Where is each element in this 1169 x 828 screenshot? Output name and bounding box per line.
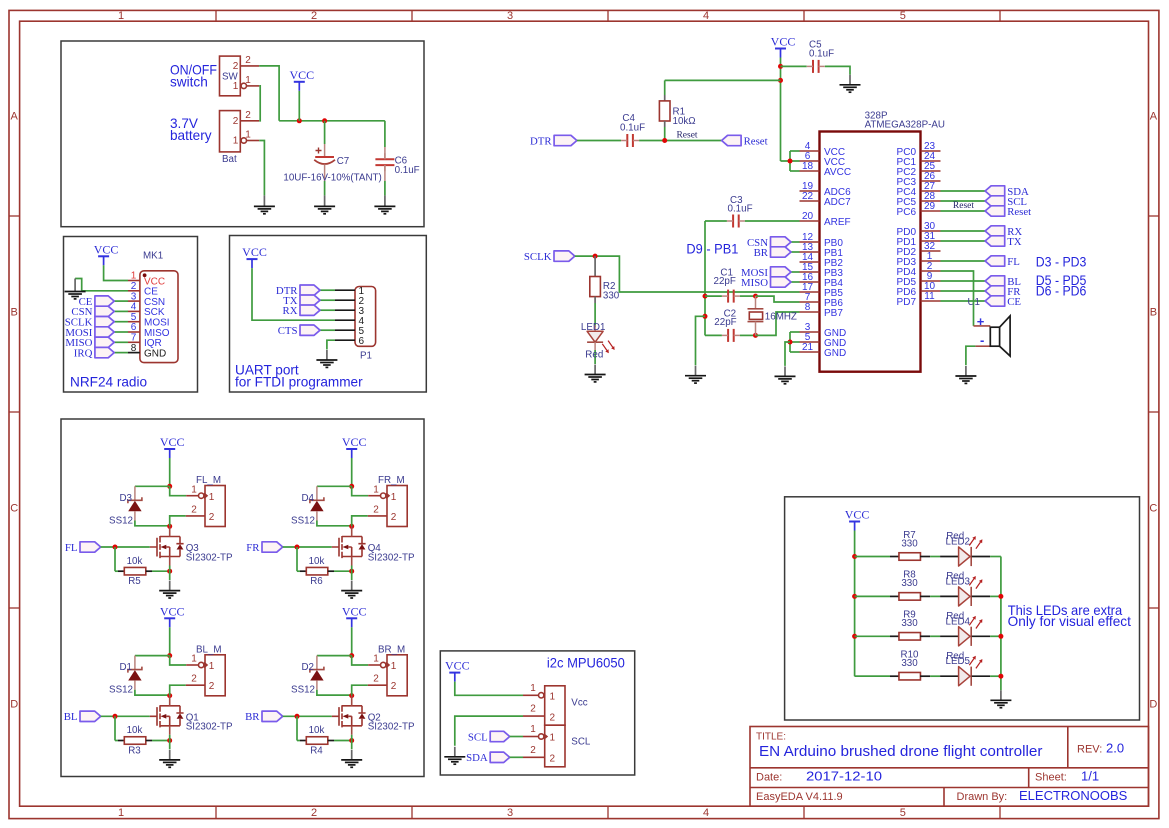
svg-text:Reset: Reset xyxy=(744,135,768,147)
svg-text:D3: D3 xyxy=(119,493,132,504)
svg-text:R4: R4 xyxy=(310,745,323,756)
svg-text:21: 21 xyxy=(802,342,814,353)
svg-text:1: 1 xyxy=(391,661,397,672)
svg-text:A: A xyxy=(11,111,19,123)
svg-text:22: 22 xyxy=(802,191,814,202)
svg-text:D2: D2 xyxy=(301,662,314,673)
svg-text:1: 1 xyxy=(391,492,397,503)
svg-text:P1: P1 xyxy=(360,351,372,362)
svg-text:0.1uF: 0.1uF xyxy=(395,165,420,176)
svg-text:battery: battery xyxy=(170,128,212,143)
svg-text:Reset: Reset xyxy=(676,131,697,141)
svg-text:Only for visual effect: Only for visual effect xyxy=(1008,614,1131,629)
svg-text:1: 1 xyxy=(118,10,124,22)
svg-text:BL_M: BL_M xyxy=(196,644,222,655)
svg-text:4: 4 xyxy=(703,10,709,22)
svg-text:GND: GND xyxy=(144,348,166,359)
svg-text:16MHZ: 16MHZ xyxy=(765,311,797,322)
svg-text:B: B xyxy=(11,307,18,319)
svg-text:VCC: VCC xyxy=(94,242,119,256)
svg-text:1: 1 xyxy=(373,484,379,495)
svg-text:2: 2 xyxy=(245,55,251,66)
svg-text:2: 2 xyxy=(209,512,215,523)
svg-text:10k: 10k xyxy=(309,725,325,736)
svg-text:-: - xyxy=(980,332,984,347)
svg-text:D: D xyxy=(1149,699,1157,711)
svg-text:FR_M: FR_M xyxy=(378,475,405,486)
svg-text:C7: C7 xyxy=(337,156,350,167)
svg-text:GND: GND xyxy=(824,348,846,359)
svg-text:IRQ: IRQ xyxy=(74,347,93,359)
svg-text:VCC: VCC xyxy=(771,35,796,49)
svg-text:1: 1 xyxy=(191,484,197,495)
svg-text:2: 2 xyxy=(391,512,397,523)
svg-text:1: 1 xyxy=(373,654,379,665)
svg-text:ADC7: ADC7 xyxy=(824,197,851,208)
svg-text:330: 330 xyxy=(901,618,918,629)
svg-text:A: A xyxy=(1150,111,1158,123)
svg-text:2: 2 xyxy=(191,674,197,685)
svg-text:NRF24 radio: NRF24 radio xyxy=(70,375,147,390)
svg-text:LED2: LED2 xyxy=(946,537,971,548)
svg-text:PB7: PB7 xyxy=(824,308,843,319)
svg-text:ATMEGA328P-AU: ATMEGA328P-AU xyxy=(865,120,945,131)
svg-text:22pF: 22pF xyxy=(714,276,736,287)
svg-text:FL_M: FL_M xyxy=(196,475,221,486)
svg-text:330: 330 xyxy=(901,658,918,669)
svg-text:PD7: PD7 xyxy=(897,297,917,308)
svg-text:MK1: MK1 xyxy=(143,251,163,262)
svg-text:5: 5 xyxy=(900,10,906,22)
svg-text:TITLE:: TITLE: xyxy=(756,732,786,743)
svg-text:8: 8 xyxy=(805,302,811,313)
svg-text:C: C xyxy=(1149,503,1157,515)
svg-text:3: 3 xyxy=(507,807,513,819)
svg-text:for FTDI programmer: for FTDI programmer xyxy=(235,375,363,390)
svg-text:Vcc: Vcc xyxy=(571,698,587,709)
svg-text:PC6: PC6 xyxy=(897,207,917,218)
svg-text:SI2302-TP: SI2302-TP xyxy=(368,552,415,563)
svg-text:20: 20 xyxy=(802,211,814,222)
svg-text:22pF: 22pF xyxy=(714,317,736,328)
svg-text:CE: CE xyxy=(1007,296,1021,308)
svg-text:0.1uF: 0.1uF xyxy=(620,123,645,134)
svg-text:8: 8 xyxy=(131,343,137,354)
svg-text:2: 2 xyxy=(311,807,317,819)
svg-text:TX: TX xyxy=(1007,236,1022,248)
svg-text:1: 1 xyxy=(191,654,197,665)
svg-text:4: 4 xyxy=(703,807,709,819)
svg-text:FL: FL xyxy=(65,542,78,554)
svg-text:29: 29 xyxy=(924,201,936,212)
svg-text:2: 2 xyxy=(245,110,251,121)
svg-text:FR: FR xyxy=(246,542,260,554)
svg-text:BL: BL xyxy=(64,711,78,723)
svg-text:1/1: 1/1 xyxy=(1081,769,1099,784)
svg-text:1: 1 xyxy=(530,683,536,694)
svg-text:11: 11 xyxy=(924,291,935,302)
svg-text:LED4: LED4 xyxy=(946,616,971,627)
svg-text:AVCC: AVCC xyxy=(824,167,851,178)
svg-text:2: 2 xyxy=(233,116,239,127)
svg-text:Reset: Reset xyxy=(953,201,974,211)
svg-text:SS12: SS12 xyxy=(109,515,133,526)
svg-text:2: 2 xyxy=(530,704,536,715)
svg-text:2: 2 xyxy=(391,681,397,692)
svg-text:LED1: LED1 xyxy=(581,322,606,333)
svg-text:VCC: VCC xyxy=(289,68,314,82)
svg-text:VCC: VCC xyxy=(160,435,185,449)
svg-text:1: 1 xyxy=(233,81,239,92)
svg-text:5: 5 xyxy=(900,807,906,819)
svg-text:BR: BR xyxy=(245,711,260,723)
svg-text:R5: R5 xyxy=(128,576,141,587)
svg-text:SS12: SS12 xyxy=(109,685,133,696)
svg-text:2: 2 xyxy=(209,681,215,692)
svg-text:2: 2 xyxy=(373,674,379,685)
svg-text:B: B xyxy=(1150,307,1157,319)
svg-text:10UF-16V-10%(TANT): 10UF-16V-10%(TANT) xyxy=(283,173,381,184)
svg-text:VCC: VCC xyxy=(242,245,267,259)
svg-text:MISO: MISO xyxy=(741,277,768,289)
svg-text:1: 1 xyxy=(530,724,536,735)
svg-text:Reset: Reset xyxy=(1007,206,1031,218)
svg-text:ELECTRONOOBS: ELECTRONOOBS xyxy=(1019,788,1128,803)
svg-text:2017-12-10: 2017-12-10 xyxy=(806,769,882,784)
svg-text:AREF: AREF xyxy=(824,217,851,228)
svg-text:2.0: 2.0 xyxy=(1106,741,1124,756)
svg-text:C: C xyxy=(10,503,18,515)
svg-text:switch: switch xyxy=(170,75,208,90)
svg-text:SI2302-TP: SI2302-TP xyxy=(186,552,233,563)
svg-text:+: + xyxy=(977,314,985,329)
svg-text:Bat: Bat xyxy=(222,154,237,165)
svg-text:SDA: SDA xyxy=(466,752,488,764)
svg-text:1: 1 xyxy=(233,136,239,147)
svg-text:BR: BR xyxy=(754,247,769,259)
svg-text:Date:: Date: xyxy=(756,772,782,784)
svg-text:SI2302-TP: SI2302-TP xyxy=(186,722,233,733)
svg-text:SS12: SS12 xyxy=(291,685,315,696)
svg-text:3: 3 xyxy=(507,10,513,22)
svg-text:i2c MPU6050: i2c MPU6050 xyxy=(547,656,625,671)
svg-text:LED3: LED3 xyxy=(946,576,971,587)
svg-text:REV:: REV: xyxy=(1077,744,1102,756)
svg-text:18: 18 xyxy=(802,161,814,172)
svg-text:Sheet:: Sheet: xyxy=(1035,772,1067,784)
svg-text:2: 2 xyxy=(550,712,556,723)
svg-text:RX: RX xyxy=(283,305,298,317)
svg-text:1: 1 xyxy=(245,75,251,86)
svg-text:D9 - PB1: D9 - PB1 xyxy=(686,242,738,257)
svg-text:330: 330 xyxy=(901,538,918,549)
svg-text:330: 330 xyxy=(901,578,918,589)
svg-text:VCC: VCC xyxy=(342,604,367,618)
svg-text:6: 6 xyxy=(359,336,365,347)
svg-text:EN Arduino brushed drone fligh: EN Arduino brushed drone flight controll… xyxy=(759,743,1043,760)
svg-text:D3 - PD3: D3 - PD3 xyxy=(1036,255,1087,270)
svg-text:D1: D1 xyxy=(119,662,132,673)
svg-text:Red: Red xyxy=(585,349,603,360)
svg-text:SCL: SCL xyxy=(468,731,488,743)
svg-text:SCL: SCL xyxy=(571,737,591,748)
svg-text:1: 1 xyxy=(118,807,124,819)
svg-text:VCC: VCC xyxy=(342,435,367,449)
svg-text:SS12: SS12 xyxy=(291,515,315,526)
svg-text:1: 1 xyxy=(245,130,251,141)
svg-text:10k: 10k xyxy=(309,556,325,567)
svg-text:0.1uF: 0.1uF xyxy=(809,49,834,60)
svg-text:1: 1 xyxy=(550,733,556,744)
svg-text:10k: 10k xyxy=(127,725,143,736)
svg-text:1: 1 xyxy=(550,692,556,703)
svg-text:R6: R6 xyxy=(310,576,323,587)
svg-text:BR_M: BR_M xyxy=(378,644,405,655)
svg-text:SI2302-TP: SI2302-TP xyxy=(368,722,415,733)
svg-text:VCC: VCC xyxy=(160,604,185,618)
svg-text:SCLK: SCLK xyxy=(524,251,552,263)
svg-text:2: 2 xyxy=(191,504,197,515)
svg-text:CTS: CTS xyxy=(278,325,298,337)
svg-text:VCC: VCC xyxy=(445,659,470,673)
svg-text:2: 2 xyxy=(311,10,317,22)
svg-text:10kΩ: 10kΩ xyxy=(673,116,696,127)
svg-text:0.1uF: 0.1uF xyxy=(728,204,753,215)
svg-text:LED5: LED5 xyxy=(946,656,971,667)
svg-text:DTR: DTR xyxy=(530,135,552,147)
svg-text:FL: FL xyxy=(1007,256,1020,268)
svg-text:D4: D4 xyxy=(301,493,314,504)
svg-text:1: 1 xyxy=(209,661,215,672)
svg-text:Drawn By:: Drawn By: xyxy=(957,791,1008,803)
svg-text:D6 - PD6: D6 - PD6 xyxy=(1036,283,1087,298)
svg-text:EasyEDA V4.11.9: EasyEDA V4.11.9 xyxy=(756,791,843,803)
svg-text:2: 2 xyxy=(530,745,536,756)
svg-text:2: 2 xyxy=(373,504,379,515)
svg-text:R3: R3 xyxy=(128,745,141,756)
svg-text:2: 2 xyxy=(550,754,556,765)
svg-text:10k: 10k xyxy=(127,556,143,567)
svg-text:D: D xyxy=(10,699,18,711)
svg-text:330: 330 xyxy=(603,290,620,301)
svg-text:1: 1 xyxy=(209,492,215,503)
svg-text:2: 2 xyxy=(233,61,239,72)
svg-text:VCC: VCC xyxy=(845,508,870,522)
